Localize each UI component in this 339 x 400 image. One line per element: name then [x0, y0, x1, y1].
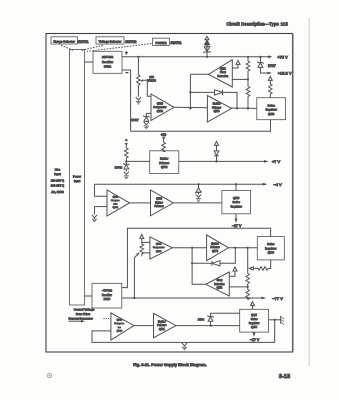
Q758 bottom stub to -27V [235, 214, 238, 223]
svg-text:Series: Series [233, 200, 241, 204]
emitter follower Q716 [207, 96, 231, 123]
dashed mechanical link from Range Selector [61, 45, 74, 50]
svg-text:+: + [125, 139, 127, 143]
svg-text:−4 V: −4 V [273, 182, 282, 187]
section D top wire to -4V [95, 183, 267, 186]
svg-text:Q723: Q723 [157, 110, 164, 113]
off-page up arrow to short protection E input [229, 267, 237, 276]
control voltage annotation [68, 308, 94, 323]
svg-text:Control Voltage: Control Voltage [74, 308, 95, 312]
svg-text:VOLTS: VOLTS [147, 79, 156, 83]
node on -77V rail [247, 297, 249, 299]
divider resistor upper [246, 57, 250, 80]
back-to-back diodes on +35V rail [203, 40, 210, 57]
svg-text:D712: D712 [104, 64, 112, 68]
emitter follower Q744 box [150, 151, 179, 174]
bypass diode E [191, 248, 235, 266]
svg-text:+7 V: +7 V [272, 159, 281, 164]
comparator Q752 Q754 [107, 190, 130, 216]
svg-text:Q764: Q764 [156, 251, 162, 253]
svg-text:ator: ator [113, 203, 117, 206]
-77V rectifier D716 box [92, 283, 122, 308]
short protection Q772 [206, 272, 230, 296]
svg-text:Q762: Q762 [156, 244, 162, 246]
switch label: Voltage Selector SW702 [96, 37, 136, 44]
svg-text:Q782: Q782 [117, 320, 123, 322]
svg-text:+75 V: +75 V [277, 54, 288, 59]
svg-text:Follower: Follower [159, 161, 169, 165]
svg-text:Q716: Q716 [214, 110, 221, 113]
wire rectifier minus down [122, 70, 131, 131]
switch label: POWER SW701 [153, 38, 182, 45]
zener D717 at comparator input [143, 113, 151, 121]
emitter follower Q774 [207, 235, 229, 261]
svg-text:AC, 50/60: AC, 50/60 [51, 190, 64, 194]
svg-text:Emitter: Emitter [211, 242, 219, 245]
wire comparator E to follower E [172, 247, 206, 249]
wire short protection output to feedback node [190, 73, 208, 75]
node on rail at diode pair [206, 56, 208, 58]
svg-text:Q754: Q754 [113, 207, 119, 209]
svg-text:+: + [125, 50, 128, 55]
comparator Q782 Q786 [111, 313, 134, 340]
svg-text:D743: D743 [115, 165, 123, 169]
svg-text:Q752: Q752 [113, 196, 119, 198]
svg-text:Compar-: Compar- [111, 199, 120, 202]
svg-text:+12.2 V: +12.2 V [278, 70, 292, 75]
svg-text:D717: D717 [131, 118, 139, 122]
section E top rail [127, 228, 270, 243]
zener D794 [207, 313, 239, 325]
node feedback/main wire [189, 107, 191, 109]
node feedback E on main wire [191, 247, 193, 249]
svg-text:−77 V: −77 V [272, 296, 283, 301]
node at D794 [209, 325, 211, 327]
ground on feedback wire [182, 343, 187, 350]
off-page up arrow above diode pair [205, 36, 209, 39]
comparator upper input wire [95, 184, 108, 196]
svg-text:Emitter: Emitter [155, 201, 163, 204]
svg-text:SW701: SW701 [170, 41, 181, 45]
series regulator Q758 box [222, 191, 251, 214]
svg-text:Q774: Q774 [212, 250, 219, 253]
wire transformer to -77V rectifier [85, 295, 93, 297]
svg-text:Short: Short [220, 71, 226, 74]
svg-text:±35-Volt: ±35-Volt [102, 55, 113, 59]
svg-text:Regulator: Regulator [265, 246, 276, 250]
svg-text:Series: Series [267, 242, 275, 246]
svg-text:Protection: Protection [217, 75, 228, 78]
svg-text:Q798: Q798 [251, 326, 258, 329]
node feedback/diode wire [189, 91, 191, 93]
off-page up arrow above series regulator [268, 76, 272, 80]
power transformer box (Power Input) [70, 50, 85, 306]
dashed mechanical link from POWER switch [87, 44, 152, 52]
svg-text:Protection: Protection [214, 283, 225, 286]
svg-text:Fig. 3-11. Power Supply Block: Fig. 3-11. Power Supply Block Diagram. [133, 363, 207, 367]
wire comparator F to follower F [134, 325, 154, 327]
svg-text:Q710: Q710 [220, 67, 227, 70]
comparator Q762 Q764 [150, 237, 173, 259]
short protection amp Q710 [209, 60, 233, 87]
node divider E middle [247, 286, 249, 288]
svg-text:3-13: 3-13 [279, 374, 290, 380]
chassis ground right [281, 316, 285, 325]
svg-text:POWER: POWER [156, 41, 168, 45]
node on rail at divider resistors [247, 56, 249, 58]
svg-text:Series: Series [268, 103, 276, 107]
svg-text:Series: Series [251, 318, 259, 321]
divider resistor E upper [246, 248, 250, 287]
svg-text:D737: D737 [268, 64, 276, 68]
svg-text:110-126 V,: 110-126 V, [51, 179, 64, 183]
comparator lower input wire with ground [92, 207, 107, 222]
pot divider section E [140, 242, 144, 256]
svg-text:Emitter: Emitter [158, 320, 166, 323]
node divider middle [247, 78, 249, 80]
svg-text:Short: Short [217, 279, 223, 282]
emitter follower Q791 [154, 313, 177, 337]
resistor from + source [125, 143, 129, 161]
main wire comparator to series regulator [174, 107, 257, 108]
svg-text:Comparator: Comparator [153, 106, 166, 109]
svg-text:Regulator: Regulator [266, 108, 277, 112]
-77V rail [122, 297, 266, 300]
node on +7V wire [215, 160, 217, 162]
node on output wire [274, 319, 276, 321]
svg-text:Emitter: Emitter [160, 157, 168, 161]
off-page up arrow to short protection input [232, 60, 240, 68]
node on rail at pot [137, 56, 139, 58]
wire follower E to Q778 [229, 247, 258, 249]
svg-text:Input: Input [54, 172, 61, 176]
off-page up arrow to comparator E input [140, 234, 150, 242]
Q758 top stub [235, 184, 237, 190]
svg-text:Q714: Q714 [157, 102, 164, 105]
svg-text:Follower: Follower [157, 324, 166, 327]
svg-text:Q772: Q772 [217, 288, 223, 290]
svg-text:Current Generator: Current Generator [68, 317, 92, 321]
svg-text:Follower: Follower [154, 205, 163, 208]
svg-text:Q756: Q756 [156, 198, 163, 201]
wire short protection E lower input [229, 286, 247, 288]
svg-text:Rectifier: Rectifier [102, 60, 113, 64]
wire to emitter follower Q744 [126, 160, 149, 162]
adjustment pot +-33 VOLTS [137, 57, 151, 97]
off-page up arrow at +7V clamp diode [215, 141, 219, 145]
zener D737 to +12.2V [257, 57, 272, 75]
svg-text:±33: ±33 [149, 75, 154, 79]
feedback vertical wire [189, 74, 191, 108]
resistor into Q744 with feed arrow [162, 137, 166, 152]
zener to ground on -4V wire [195, 184, 201, 201]
divider resistor lower [246, 79, 250, 108]
comparator Q714 Q723 [151, 94, 174, 121]
resistor Q778 bottom with left arrow [249, 260, 270, 270]
svg-text:Voltage Selector: Voltage Selector [99, 39, 122, 43]
dashed mechanical link from Voltage Selector [81, 45, 103, 50]
svg-text:Range Selector: Range Selector [54, 39, 76, 43]
node at emitter follower output [236, 107, 238, 109]
Q797 bottom stub to -17V [253, 332, 256, 337]
svg-text:Q778: Q778 [268, 251, 275, 255]
wire follower F to Q797 box [176, 325, 240, 327]
line input annotation text [51, 167, 65, 194]
bypass diode wire [190, 90, 237, 109]
comparator E lower input wire [142, 252, 150, 254]
wire transformer to +-35V rectifier [85, 61, 94, 63]
rectifier D712 box [93, 51, 122, 73]
section E left vertical to rectifier [122, 243, 128, 288]
svg-text:Q718: Q718 [268, 112, 275, 116]
divider resistor E lower [246, 287, 250, 300]
series regulator Q778 box [257, 237, 284, 260]
svg-text:D716: D716 [104, 297, 111, 301]
svg-text:180-272 V,: 180-272 V, [51, 183, 65, 187]
switch label: Range Selector SW701 [51, 37, 89, 44]
node at divider bottom [247, 107, 249, 109]
svg-text:−27 V: −27 V [232, 224, 242, 228]
ground below D717 [144, 122, 149, 129]
svg-text:Regulator: Regulator [249, 322, 260, 325]
svg-text:−77-Volt: −77-Volt [102, 288, 112, 292]
svg-text:−: − [126, 70, 129, 75]
svg-text:Rectifier: Rectifier [102, 293, 112, 297]
wire +35V rail to +75V arrow [122, 55, 272, 58]
off-page up arrow Q797 to -77V rail [251, 302, 255, 310]
svg-text:Regulator: Regulator [231, 204, 242, 208]
dashed control input to comparator F [104, 318, 111, 320]
svg-text:−17 V: −17 V [250, 338, 260, 342]
svg-text:D794: D794 [198, 317, 205, 321]
svg-text:SW702: SW702 [125, 40, 136, 44]
series regulator Q718 box [257, 98, 286, 120]
zener D743 [123, 161, 129, 171]
svg-text:Follower: Follower [212, 106, 221, 109]
svg-text:Q744: Q744 [161, 165, 168, 169]
svg-text:Emitter: Emitter [213, 103, 221, 106]
wire divider to short protection input [232, 78, 248, 80]
svg-text:Compara-: Compara- [114, 322, 124, 325]
svg-text:Q797: Q797 [251, 314, 258, 317]
node at zener on -4V wire [197, 183, 199, 185]
node on rail at zener D737 [259, 56, 261, 58]
svg-text:Q786: Q786 [117, 330, 123, 332]
series regulator Q797 Q798 box [240, 309, 269, 332]
return wire +23 [131, 120, 271, 132]
svg-text:Input: Input [74, 179, 80, 183]
svg-text:Follower: Follower [210, 246, 219, 249]
feedback U wire section F [92, 320, 275, 343]
ground below pot [136, 97, 141, 104]
node wiper on -77V rail [133, 297, 135, 299]
svg-text:Circuit Description—Type 115: Circuit Description—Type 115 [226, 22, 288, 27]
svg-text:Line: Line [55, 167, 61, 171]
node above D743 [125, 160, 127, 162]
svg-text:Comparator: Comparator [153, 246, 165, 249]
svg-text:Q758: Q758 [233, 196, 240, 200]
clamp diode on +7V line [214, 145, 219, 161]
ground below D743 [124, 172, 129, 179]
node bypass E [234, 247, 236, 249]
wire comparator to emitter follower [130, 202, 151, 204]
wiper arrow section E [134, 252, 139, 298]
Q797 output wire to chassis ground [269, 319, 281, 321]
svg-text:from Other: from Other [76, 312, 90, 316]
svg-text:SW701: SW701 [77, 40, 88, 44]
feedback vertical E to short protection [192, 263, 206, 284]
node at Q758 top stub [235, 183, 237, 185]
node divider E top [247, 247, 249, 249]
svg-text:tor: tor [118, 326, 121, 329]
emitter follower Q756 [151, 190, 174, 216]
svg-text:Power: Power [73, 175, 81, 179]
wire Q744 to +7V arrow [179, 160, 268, 163]
svg-text:Q791: Q791 [159, 328, 166, 331]
wire emitter follower to Q758 [173, 202, 222, 204]
svg-text:+23: +23 [161, 133, 167, 137]
resistor to series regulator top [268, 80, 272, 97]
